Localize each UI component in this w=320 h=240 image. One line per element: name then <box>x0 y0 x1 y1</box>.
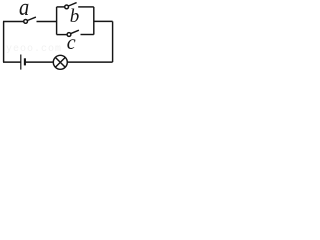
switch c pivot circle <box>67 33 71 37</box>
wire: branch c left segment <box>57 34 68 36</box>
wire: parallel box right vertical <box>93 7 95 35</box>
svg-text:yeoo.com: yeoo.com <box>6 44 62 55</box>
wire: battery to bottom-left corner <box>3 61 21 63</box>
switch c blade <box>71 30 79 33</box>
wire: branch c right segment <box>81 34 94 36</box>
switch b pivot circle <box>65 5 69 9</box>
svg-text:a: a <box>19 0 29 20</box>
wire: top-left horizontal to switch a <box>3 21 24 23</box>
wire: left vertical <box>3 22 5 63</box>
wire: right vertical <box>112 21 114 62</box>
battery: short plate <box>24 58 26 65</box>
wire: bottom-right horizontal to lamp <box>67 61 112 63</box>
switch b blade <box>68 3 76 6</box>
wire: switch a to left junction <box>37 21 57 23</box>
switch a blade <box>27 17 36 20</box>
switch a pivot circle <box>24 20 28 24</box>
battery: long plate <box>20 55 22 70</box>
wire: box output to top-right corner <box>94 20 113 22</box>
lamp (circle with X) <box>53 55 67 69</box>
svg-text:c: c <box>67 32 76 54</box>
wire: branch b right segment <box>78 6 94 8</box>
wire: branch b left segment <box>57 6 65 8</box>
wire: lamp to battery <box>26 61 54 63</box>
svg-text:b: b <box>70 6 80 27</box>
wire: parallel box left vertical <box>56 7 58 35</box>
